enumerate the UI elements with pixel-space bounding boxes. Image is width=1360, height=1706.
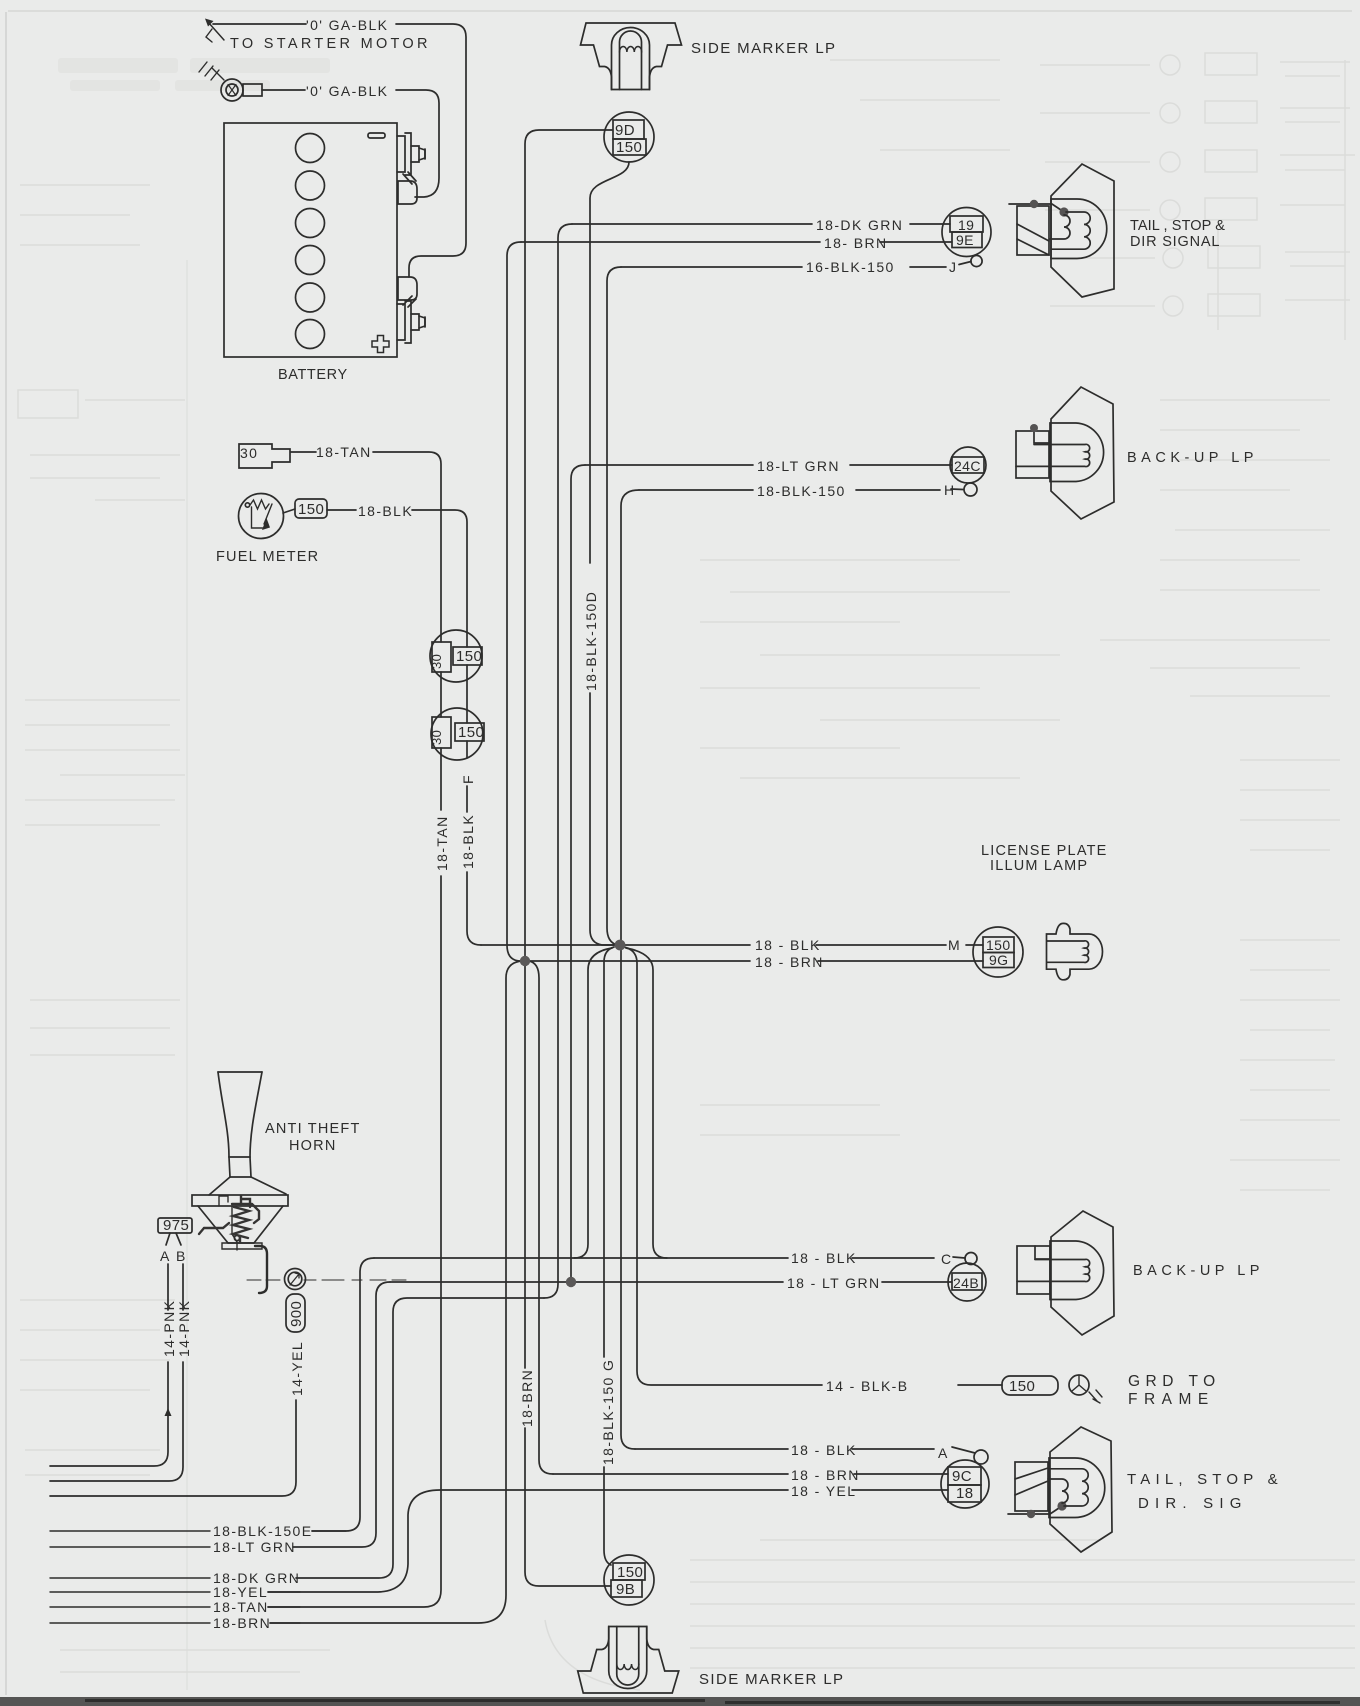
horizontal DK GRN cross line — [296, 1298, 544, 1578]
svg-text:B: B — [176, 1248, 187, 1264]
svg-text:14-PNK: 14-PNK — [176, 1300, 192, 1357]
back-up1 connector 24C — [950, 447, 986, 483]
wire 0GA-BLK to battery negative — [262, 90, 439, 197]
ghost fold line — [186, 260, 188, 1690]
junction2 fan-out — [604, 947, 614, 1565]
svg-text:DIR. SIG: DIR. SIG — [1138, 1495, 1248, 1512]
svg-text:14-YEL: 14-YEL — [289, 1341, 305, 1396]
svg-text:18-TAN: 18-TAN — [434, 815, 450, 871]
wire 0GA-BLK to starter motor — [213, 24, 466, 277]
svg-text:9C: 9C — [952, 1468, 972, 1485]
svg-text:18-BLK-150E: 18-BLK-150E — [213, 1523, 312, 1539]
wire 18-BLK-150D from 9D bottom — [590, 162, 629, 945]
ghost top-right rows — [830, 53, 1355, 340]
wire from 9D to 18-BRN vertical — [525, 130, 612, 1368]
svg-text:9D: 9D — [615, 122, 635, 139]
900 grommet connector — [285, 1269, 306, 1333]
horizontal 18-BLK to license (from 467) — [481, 944, 983, 946]
svg-text:DIR SIGNAL: DIR SIGNAL — [1130, 234, 1220, 250]
A/B wires — [50, 1264, 168, 1466]
svg-text:18-LT GRN: 18-LT GRN — [757, 458, 840, 474]
svg-text:GRD TO: GRD TO — [1128, 1373, 1221, 1390]
bottom scan band — [0, 1697, 1360, 1706]
horn bracket — [255, 1246, 267, 1293]
svg-text:18- BRN: 18- BRN — [824, 235, 887, 251]
svg-text:150: 150 — [1009, 1378, 1035, 1395]
svg-text:150: 150 — [458, 724, 484, 741]
svg-text:14 - BLK-B: 14 - BLK-B — [826, 1378, 908, 1394]
svg-text:TAIL, STOP &: TAIL, STOP & — [1127, 1471, 1283, 1488]
side marker lamp top — [581, 23, 682, 90]
inline connector circle B (30|150) — [431, 708, 484, 760]
150/9B connector — [604, 1555, 654, 1605]
horizontal 18-BLK / A line — [635, 1448, 934, 1450]
svg-text:18 - BRN: 18 - BRN — [791, 1467, 860, 1483]
svg-text:F: F — [460, 774, 476, 784]
svg-text:ANTI THEFT: ANTI THEFT — [265, 1121, 361, 1137]
svg-text:24B: 24B — [953, 1275, 979, 1291]
svg-text:18-YEL: 18-YEL — [213, 1584, 268, 1600]
svg-text:24C: 24C — [954, 458, 981, 474]
battery positive terminal (bottom) — [397, 296, 425, 343]
junction1 area: U-branches — [270, 961, 521, 1623]
svg-text:9G: 9G — [989, 952, 1008, 968]
svg-text:18 - LT GRN: 18 - LT GRN — [787, 1275, 880, 1291]
ghost bottom-center curve — [545, 1620, 640, 1690]
svg-text:18 - BRN: 18 - BRN — [755, 954, 824, 970]
svg-text:30: 30 — [429, 654, 444, 669]
ghost left column — [18, 185, 330, 1672]
svg-text:18-TAN: 18-TAN — [316, 444, 372, 460]
svg-text:18 - BLK: 18 - BLK — [755, 937, 821, 953]
30 tab box — [239, 444, 290, 468]
svg-text:14-PNK: 14-PNK — [161, 1300, 177, 1357]
license lamp — [1047, 923, 1103, 979]
tail2 lamp — [1008, 1427, 1112, 1552]
junction dots — [520, 956, 530, 966]
bottom-left label stub lines — [50, 1531, 346, 1623]
svg-text:BATTERY: BATTERY — [278, 367, 348, 383]
svg-text:FUEL METER: FUEL METER — [216, 549, 319, 565]
svg-text:18-BLK-150: 18-BLK-150 — [757, 483, 846, 499]
MAIN LAYER — [50, 19, 1114, 1694]
svg-text:J: J — [949, 259, 957, 275]
150 box at fuel meter — [295, 499, 327, 518]
horizontal 18-LT GRN / 24B line — [390, 1281, 952, 1283]
ghost right column — [1100, 400, 1340, 1190]
anti theft horn — [192, 1072, 288, 1250]
GRD TO FRAME — [958, 1375, 1102, 1403]
svg-text:'0' GA-BLK: '0' GA-BLK — [306, 83, 388, 99]
tail1 connector 19/9E — [942, 208, 991, 257]
svg-text:975: 975 — [163, 1217, 189, 1234]
svg-text:18-BLK-150 G: 18-BLK-150 G — [600, 1359, 616, 1465]
ghost center rows — [700, 560, 1060, 1135]
battery — [224, 123, 397, 357]
svg-text:18-BLK-150D: 18-BLK-150D — [583, 591, 599, 691]
horizontal 18-BLK / C line — [374, 1257, 934, 1259]
svg-text:150: 150 — [616, 139, 642, 156]
svg-text:LICENSE PLATE: LICENSE PLATE — [981, 843, 1108, 859]
dash-dot line through grommet — [247, 1279, 406, 1281]
svg-text:18-DK GRN: 18-DK GRN — [816, 217, 903, 233]
svg-text:C: C — [941, 1251, 953, 1267]
svg-text:9B: 9B — [616, 1581, 635, 1598]
svg-text:150: 150 — [617, 1564, 643, 1581]
back-up1 wires — [585, 464, 952, 466]
horn internal dark mech — [199, 1196, 259, 1242]
svg-text:A: A — [160, 1248, 171, 1264]
inline connector circle A (30|150) — [430, 630, 482, 682]
svg-text:A: A — [938, 1445, 949, 1461]
svg-text:18 - BLK: 18 - BLK — [791, 1442, 857, 1458]
tail1 lamp — [1009, 164, 1114, 297]
side marker bottom — [578, 1627, 679, 1694]
battery positive cable lug — [398, 277, 417, 300]
svg-text:H: H — [944, 482, 956, 498]
arrow to starter motor — [208, 22, 224, 40]
9D/150 connector — [604, 112, 654, 162]
horizontal 18-BRN to license — [525, 960, 983, 962]
24B connector — [948, 1263, 986, 1301]
battery negative terminal (top) — [397, 133, 425, 184]
wire 18-TAN from 30 tab — [268, 452, 441, 1607]
svg-text:9E: 9E — [956, 232, 974, 248]
horizontal 18-YEL S-path — [268, 1490, 948, 1592]
svg-text:18-BLK: 18-BLK — [460, 814, 476, 869]
svg-text:TO STARTER MOTOR: TO STARTER MOTOR — [230, 36, 431, 52]
svg-text:18-BRN: 18-BRN — [519, 1369, 535, 1427]
svg-text:BACK-UP LP: BACK-UP LP — [1127, 450, 1258, 466]
svg-text:'0' GA-BLK: '0' GA-BLK — [306, 17, 388, 33]
14-YEL wire — [50, 1400, 296, 1496]
license connector 150/9G — [973, 927, 1023, 977]
svg-text:18 - BLK: 18 - BLK — [791, 1250, 857, 1266]
page edges — [5, 12, 7, 1695]
svg-text:150: 150 — [298, 501, 324, 518]
svg-text:30: 30 — [429, 730, 444, 745]
svg-text:SIDE MARKER LP: SIDE MARKER LP — [699, 1671, 844, 1688]
fuel meter — [239, 494, 284, 539]
svg-text:FRAME: FRAME — [1128, 1391, 1215, 1408]
svg-text:900: 900 — [288, 1301, 305, 1327]
back-up1 lamp — [1016, 387, 1114, 519]
svg-text:M: M — [948, 937, 961, 953]
horizontal 18-BRN to 9C — [553, 1473, 948, 1475]
svg-text:ILLUM LAMP: ILLUM LAMP — [990, 858, 1088, 874]
battery negative cable lug — [398, 181, 417, 204]
975 box and A B — [158, 1218, 192, 1245]
ghost bottom-right rows — [690, 1540, 1355, 1668]
svg-text:18-BLK: 18-BLK — [358, 503, 413, 519]
svg-text:BACK-UP LP: BACK-UP LP — [1133, 1263, 1264, 1279]
back-up2 lamp — [1017, 1211, 1114, 1335]
svg-text:18-LT GRN: 18-LT GRN — [213, 1539, 296, 1555]
svg-text:HORN: HORN — [289, 1138, 337, 1154]
svg-text:18: 18 — [956, 1485, 974, 1502]
ground hatch at ring terminal — [199, 62, 224, 80]
svg-text:150: 150 — [456, 648, 482, 665]
tail1 wires — [572, 223, 950, 225]
svg-text:18 - YEL: 18 - YEL — [791, 1483, 856, 1499]
svg-text:TAIL , STOP &: TAIL , STOP & — [1130, 218, 1225, 234]
svg-text:150: 150 — [986, 937, 1011, 953]
wire 18-BLK from fuel meter — [327, 510, 481, 945]
svg-text:SIDE MARKER LP: SIDE MARKER LP — [691, 40, 836, 57]
svg-text:30: 30 — [240, 445, 258, 461]
ghost top-left title block — [58, 58, 330, 91]
9C/18 connector — [941, 1460, 989, 1508]
svg-text:16-BLK-150: 16-BLK-150 — [806, 259, 895, 275]
svg-text:18-TAN: 18-TAN — [213, 1599, 269, 1615]
ring terminal — [221, 79, 262, 101]
svg-text:19: 19 — [958, 217, 974, 233]
svg-text:18-BRN: 18-BRN — [213, 1615, 271, 1631]
